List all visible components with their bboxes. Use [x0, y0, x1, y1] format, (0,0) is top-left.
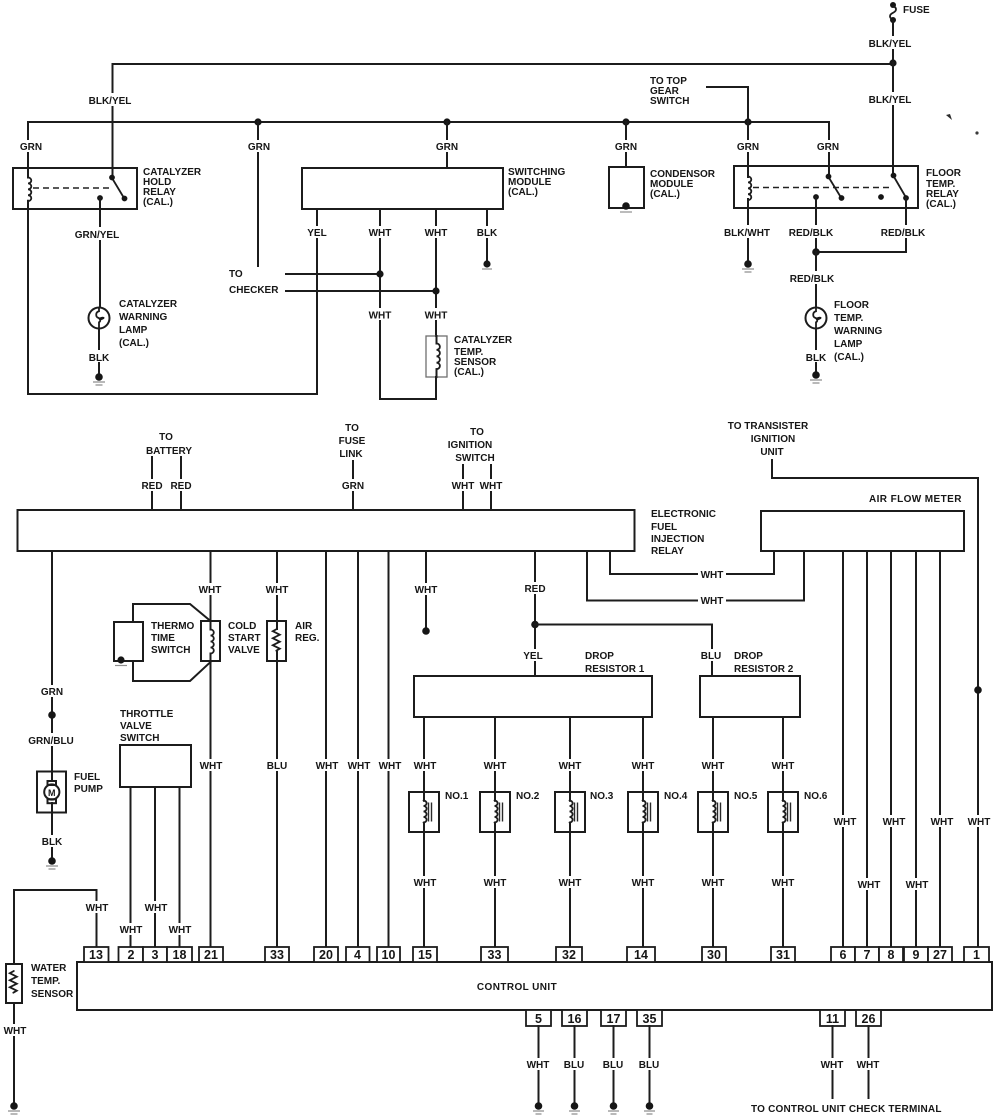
- svg-text:WHT: WHT: [484, 761, 507, 772]
- svg-text:WHT: WHT: [883, 817, 906, 828]
- terminal 20: [314, 947, 338, 962]
- svg-text:RED: RED: [170, 481, 191, 492]
- electronic fuel injection relay: [18, 510, 635, 551]
- svg-text:GRN: GRN: [737, 142, 759, 153]
- svg-text:WHT: WHT: [379, 761, 402, 772]
- svg-text:WHT: WHT: [834, 817, 857, 828]
- svg-text:WHT: WHT: [4, 1026, 27, 1037]
- svg-text:RED/BLK: RED/BLK: [881, 228, 926, 239]
- svg-text:NO.4: NO.4: [664, 791, 688, 802]
- node: BLK/YEL junction: [889, 59, 896, 66]
- svg-text:SWITCH: SWITCH: [120, 733, 159, 744]
- svg-text:GRN: GRN: [615, 142, 637, 153]
- svg-text:ELECTRONIC: ELECTRONIC: [651, 509, 716, 520]
- wire: WHT to cold start valve and terminal 21: [210, 551, 212, 630]
- label GRN node A: [17, 140, 44, 152]
- wire: DR2 out to injector NO.5: [712, 717, 714, 801]
- svg-text:WHT: WHT: [369, 311, 392, 322]
- svg-text:GRN: GRN: [817, 142, 839, 153]
- svg-text:6: 6: [840, 948, 847, 962]
- svg-text:RED: RED: [524, 584, 545, 595]
- svg-text:BLU: BLU: [267, 761, 288, 772]
- terminal 35: [637, 1010, 662, 1026]
- wire: YEL from switching module to rail: [316, 209, 318, 394]
- node: RED/BLK junction: [812, 248, 820, 256]
- wire: BLK pump to ground: [51, 813, 53, 858]
- svg-text:DROP: DROP: [734, 651, 763, 662]
- svg-text:GRN: GRN: [436, 142, 458, 153]
- wire: GRN fuse link feed: [352, 461, 354, 510]
- drop resistor 1: [414, 676, 652, 717]
- svg-text:13: 13: [89, 948, 103, 962]
- svg-text:BLK: BLK: [806, 353, 827, 364]
- svg-text:RESISTOR 2: RESISTOR 2: [734, 664, 794, 675]
- wire: DR1 out to injector NO.2: [494, 717, 496, 801]
- svg-text:(CAL.): (CAL.): [926, 199, 956, 210]
- svg-text:LINK: LINK: [339, 449, 363, 460]
- floor temp warning lamp: [806, 308, 827, 329]
- svg-text:FLOOR: FLOOR: [834, 300, 870, 311]
- svg-text:SENSOR: SENSOR: [31, 989, 74, 1000]
- svg-text:3: 3: [152, 948, 159, 962]
- terminal 11: [820, 1010, 845, 1026]
- svg-text:THERMO: THERMO: [151, 621, 195, 632]
- wire: RED battery feed 2: [180, 457, 182, 510]
- terminal 14: [627, 947, 655, 962]
- svg-text:WHT: WHT: [415, 585, 438, 596]
- terminal 30: [702, 947, 726, 962]
- svg-text:GRN: GRN: [41, 687, 63, 698]
- svg-text:TO: TO: [229, 269, 243, 280]
- wire: WHT ignition feed 1: [462, 465, 464, 510]
- svg-text:RED: RED: [141, 481, 162, 492]
- svg-text:BLK: BLK: [477, 228, 498, 239]
- wire: terminal 16 to ground: [574, 1026, 576, 1102]
- ground: condensor internal: [622, 202, 630, 210]
- svg-text:(CAL.): (CAL.): [143, 197, 173, 208]
- node: RED/YEL-BLU split: [531, 621, 539, 629]
- terminal 18: [167, 947, 192, 962]
- cold start valve: [201, 621, 220, 661]
- terminal 13: [84, 947, 109, 962]
- catalyzer warning lamp: [89, 308, 110, 329]
- svg-text:BLU: BLU: [639, 1060, 660, 1071]
- wire: terminal 5 to ground: [538, 1026, 540, 1102]
- svg-text:TO TRANSISTER: TO TRANSISTER: [728, 421, 809, 432]
- wire: GRN bus end to floor relay switch: [828, 122, 830, 176]
- wire: TVS to terminal 2: [130, 787, 132, 947]
- svg-text:(CAL.): (CAL.): [119, 338, 149, 349]
- wire: AFM pin to terminal 7: [866, 551, 868, 947]
- svg-text:WHT: WHT: [906, 880, 929, 891]
- svg-text:31: 31: [776, 948, 790, 962]
- wire: BLK stub of module: [486, 209, 488, 260]
- wire: WHT run relay to air flow meter (lower): [587, 551, 804, 601]
- wire: water temp sensor to terminal 13: [14, 890, 97, 964]
- terminal 21: [199, 947, 223, 962]
- wire: lamp to ground: [815, 329, 817, 372]
- terminal 2: [119, 947, 144, 962]
- svg-text:WHT: WHT: [425, 228, 448, 239]
- svg-text:WHT: WHT: [968, 817, 991, 828]
- svg-text:AIR: AIR: [295, 621, 313, 632]
- svg-text:33: 33: [270, 948, 284, 962]
- terminal 31: [771, 947, 795, 962]
- svg-text:IGNITION: IGNITION: [448, 440, 492, 451]
- svg-text:16: 16: [568, 1012, 582, 1026]
- terminal 16: [562, 1010, 587, 1026]
- node: checker line2 junction: [432, 287, 439, 294]
- label BLK/YEL: [866, 36, 914, 49]
- label GRN: [734, 140, 761, 152]
- wire: RED/BLK 1: [815, 197, 817, 252]
- fuse: [890, 2, 896, 8]
- wire: terminal 11 to check terminal: [832, 1026, 834, 1098]
- wire: terminal 17 to ground: [613, 1026, 615, 1102]
- wire: transistor unit to terminal 1: [772, 460, 978, 947]
- wire: BLK/WHT coil to ground: [747, 199, 749, 260]
- svg-text:REG.: REG.: [295, 633, 320, 644]
- svg-text:FLOOR: FLOOR: [926, 168, 962, 179]
- svg-text:TIME: TIME: [151, 633, 175, 644]
- wire: main GRN bus: [28, 121, 829, 123]
- wire: thermo switch lower link: [133, 661, 211, 681]
- svg-text:WHT: WHT: [772, 761, 795, 772]
- wire: relay output to terminal 4: [357, 551, 359, 947]
- svg-text:WHT: WHT: [821, 1060, 844, 1071]
- label BLK/WHT: [722, 225, 772, 238]
- label GRN/BLU: [26, 733, 76, 746]
- svg-text:WHT: WHT: [414, 878, 437, 889]
- svg-text:CONTROL UNIT: CONTROL UNIT: [477, 982, 557, 993]
- wire: GRN to floor relay coil: [747, 122, 749, 177]
- svg-text:2: 2: [128, 948, 135, 962]
- node: GRN/GRN-BLU connector: [48, 711, 56, 719]
- svg-text:COLD: COLD: [228, 621, 256, 632]
- wire: to top gear switch: [707, 87, 748, 122]
- terminal 15: [413, 947, 437, 962]
- throttle valve switch: [120, 745, 191, 787]
- wire: RED battery feed 1: [151, 457, 153, 510]
- svg-text:WHT: WHT: [702, 878, 725, 889]
- svg-text:SWITCH: SWITCH: [455, 453, 494, 464]
- wire: TVS to terminal 18: [179, 787, 181, 947]
- wire: terminal 28 to check terminal: [868, 1026, 870, 1098]
- terminal 4: [346, 947, 370, 962]
- svg-text:NO.2: NO.2: [516, 791, 540, 802]
- svg-text:FUSE: FUSE: [339, 436, 366, 447]
- injector NO.2: [480, 791, 540, 832]
- svg-text:CATALYZER: CATALYZER: [119, 299, 178, 310]
- svg-text:PUMP: PUMP: [74, 784, 103, 795]
- svg-text:WHT: WHT: [527, 1060, 550, 1071]
- svg-text:WHT: WHT: [857, 1060, 880, 1071]
- terminal 7: [855, 947, 879, 962]
- svg-text:GRN: GRN: [342, 481, 364, 492]
- wire: GRN to condensor module: [625, 122, 627, 167]
- terminal 26: [856, 1010, 881, 1026]
- svg-text:AIR FLOW METER: AIR FLOW METER: [869, 494, 962, 505]
- node: checker line1 junction: [376, 270, 383, 277]
- terminal 6: [831, 947, 855, 962]
- control unit: [77, 962, 992, 1010]
- wire: WHT/BLU to air regulator and terminal 33: [276, 551, 278, 629]
- svg-text:BLU: BLU: [701, 651, 722, 662]
- svg-text:26: 26: [862, 1012, 876, 1026]
- svg-text:WATER: WATER: [31, 963, 67, 974]
- ground: [744, 260, 752, 268]
- wire: AFM pin to terminal 27: [939, 551, 941, 947]
- svg-text:GRN: GRN: [248, 142, 270, 153]
- svg-text:VALVE: VALVE: [228, 645, 260, 656]
- condensor module: [609, 167, 644, 208]
- svg-text:NO.5: NO.5: [734, 791, 758, 802]
- ground: BLK stub end: [483, 260, 490, 267]
- injector NO.5: [698, 791, 758, 832]
- label YEL: [520, 649, 547, 661]
- svg-text:UNIT: UNIT: [760, 447, 783, 458]
- svg-text:DROP: DROP: [585, 651, 614, 662]
- svg-text:20: 20: [319, 948, 333, 962]
- ground: [610, 1102, 618, 1110]
- catalyzer temp sensor: [426, 336, 447, 377]
- floor temp relay: [734, 166, 918, 208]
- label WHT: [366, 226, 394, 238]
- svg-text:TEMP.: TEMP.: [31, 976, 60, 987]
- terminal 9: [904, 947, 928, 962]
- label RED/BLK: [788, 225, 835, 238]
- svg-text:RESISTOR 1: RESISTOR 1: [585, 664, 645, 675]
- terminal 1: [964, 947, 989, 962]
- svg-text:4: 4: [354, 948, 361, 962]
- svg-text:21: 21: [204, 948, 218, 962]
- svg-text:WHT: WHT: [858, 880, 881, 891]
- svg-text:NO.1: NO.1: [445, 791, 469, 802]
- wire: WHT ignition feed 2: [490, 465, 492, 510]
- wire: WHT pin 2 of module down and right: [380, 209, 436, 399]
- label BLU: [698, 649, 725, 661]
- injector NO.4: [628, 791, 688, 832]
- water temp sensor: [6, 964, 22, 1003]
- svg-text:TO: TO: [159, 432, 173, 443]
- svg-text:SWITCH: SWITCH: [151, 645, 190, 656]
- fuel pump: [37, 772, 66, 813]
- label BLK/YEL: [86, 93, 134, 106]
- svg-text:WARNING: WARNING: [834, 326, 883, 337]
- svg-text:THROTTLE: THROTTLE: [120, 709, 174, 720]
- wire: injector NO.6 to terminal 31: [782, 823, 784, 947]
- wire: DR2 out to injector NO.6: [782, 717, 784, 801]
- svg-text:10: 10: [382, 948, 396, 962]
- svg-text:WHT: WHT: [701, 570, 724, 581]
- svg-text:(CAL.): (CAL.): [454, 367, 484, 378]
- svg-text:WHT: WHT: [200, 761, 223, 772]
- svg-text:WHT: WHT: [559, 761, 582, 772]
- svg-text:CATALYZER: CATALYZER: [454, 335, 513, 346]
- svg-text:TO CONTROL UNIT CHECK TERMINAL: TO CONTROL UNIT CHECK TERMINAL: [751, 1104, 942, 1115]
- svg-text:START: START: [228, 633, 261, 644]
- svg-text:WARNING: WARNING: [119, 312, 168, 323]
- svg-text:BLK: BLK: [42, 837, 63, 848]
- wire: GRN relay output to fuel pump: [51, 551, 53, 772]
- svg-text:1: 1: [973, 948, 980, 962]
- terminal 33b: [481, 947, 508, 962]
- wire: thermo switch upper link: [133, 604, 211, 622]
- label YEL: [303, 226, 330, 238]
- wire: GRN/YEL relay output to lamp: [99, 198, 101, 308]
- svg-text:CHECKER: CHECKER: [229, 285, 279, 296]
- svg-text:14: 14: [634, 948, 648, 962]
- wire: injector NO.2 to terminal 33: [494, 823, 496, 947]
- wire: WHT run relay to air flow meter (upper): [610, 551, 774, 574]
- wire: injector NO.3 to terminal 32: [569, 823, 571, 947]
- svg-text:YEL: YEL: [307, 228, 326, 239]
- label BLK: [802, 350, 829, 362]
- svg-text:11: 11: [826, 1012, 839, 1026]
- svg-text:WHT: WHT: [452, 481, 475, 492]
- ground: [571, 1102, 579, 1110]
- svg-text:WHT: WHT: [348, 761, 371, 772]
- svg-text:7: 7: [864, 948, 871, 962]
- svg-text:WHT: WHT: [632, 878, 655, 889]
- svg-text:FUEL: FUEL: [651, 522, 677, 533]
- svg-text:WHT: WHT: [632, 761, 655, 772]
- wire: checker line 1: [286, 273, 380, 275]
- svg-text:GRN/BLU: GRN/BLU: [28, 736, 74, 747]
- label RED/BLK: [880, 225, 927, 238]
- ground: [48, 857, 56, 865]
- svg-text:WHT: WHT: [425, 311, 448, 322]
- label GRN/YEL: [73, 227, 122, 240]
- svg-text:(CAL.): (CAL.): [650, 189, 680, 200]
- svg-text:WHT: WHT: [772, 878, 795, 889]
- svg-text:WHT: WHT: [316, 761, 339, 772]
- ground: [10, 1102, 18, 1110]
- terminal 5: [526, 1010, 551, 1026]
- svg-text:WHT: WHT: [931, 817, 954, 828]
- svg-text:BLU: BLU: [564, 1060, 585, 1071]
- wire: RED relay output to drop resistors: [534, 551, 536, 676]
- wire: top BLK/YEL feed from fuse: [113, 63, 894, 65]
- svg-text:GRN/YEL: GRN/YEL: [75, 230, 119, 241]
- svg-text:WHT: WHT: [199, 585, 222, 596]
- wire: relay output to terminal 10: [388, 551, 390, 947]
- wire: GRN to checker: [257, 122, 259, 266]
- wire: checker line 2: [286, 290, 436, 292]
- terminal 3: [143, 947, 167, 962]
- wire: RED/BLK 2: [816, 198, 906, 252]
- wire: fuse to junction: [892, 21, 894, 63]
- terminal 10: [377, 947, 400, 962]
- svg-text:M: M: [48, 788, 56, 798]
- svg-text:15: 15: [418, 948, 432, 962]
- svg-text:BLK: BLK: [89, 353, 110, 364]
- label GRN: [433, 140, 460, 152]
- svg-text:BLK/YEL: BLK/YEL: [869, 95, 912, 106]
- wire: GRN tap to switching module: [446, 122, 448, 168]
- wire: DR1 out to injector NO.1: [423, 717, 425, 801]
- svg-text:WHT: WHT: [266, 585, 289, 596]
- svg-text:17: 17: [607, 1012, 621, 1026]
- svg-text:GRN: GRN: [20, 142, 42, 153]
- wire: TVS to terminal 3: [154, 787, 156, 947]
- wire: GRN left drop to bottom rail: [27, 122, 29, 178]
- ground: [535, 1102, 543, 1110]
- svg-text:NO.3: NO.3: [590, 791, 614, 802]
- svg-text:BLK/YEL: BLK/YEL: [869, 39, 912, 50]
- svg-text:WHT: WHT: [702, 761, 725, 772]
- ground: [95, 373, 103, 381]
- drop resistor 2: [700, 676, 800, 717]
- svg-text:(CAL.): (CAL.): [834, 352, 864, 363]
- svg-text:WHT: WHT: [120, 925, 143, 936]
- node: junction on terminal 1 wire: [974, 686, 982, 694]
- svg-text:TO: TO: [345, 423, 359, 434]
- terminal 33: [265, 947, 289, 962]
- svg-text:32: 32: [562, 948, 576, 962]
- svg-text:30: 30: [707, 948, 721, 962]
- injector NO.1: [409, 791, 469, 832]
- svg-text:BLU: BLU: [603, 1060, 624, 1071]
- air flow meter: [761, 511, 964, 551]
- svg-text:SWITCH: SWITCH: [650, 96, 689, 107]
- terminal 27: [928, 947, 952, 962]
- label GRN: [245, 140, 272, 152]
- svg-text:NO.6: NO.6: [804, 791, 828, 802]
- wire: BLK/YEL drop to floor temp relay: [892, 63, 894, 175]
- wire: injector NO.5 to terminal 30: [712, 823, 714, 947]
- wire: relay output to terminal 20: [325, 551, 327, 947]
- svg-text:WHT: WHT: [369, 228, 392, 239]
- svg-text:WHT: WHT: [480, 481, 503, 492]
- wire: terminal 35 to ground: [649, 1026, 651, 1102]
- wire: WHT pin 3 of module to temp sensor: [435, 209, 437, 336]
- wire: injector NO.1 to terminal 15: [423, 823, 425, 947]
- wire: AFM pin to terminal 9: [915, 551, 917, 947]
- svg-text:33: 33: [488, 948, 502, 962]
- svg-text:WHT: WHT: [169, 925, 192, 936]
- wire: BLK/YEL drop to catalyzer hold relay: [112, 64, 114, 177]
- label BLK: [473, 226, 500, 238]
- svg-text:8: 8: [888, 948, 895, 962]
- label GRN: [612, 140, 639, 152]
- wire: bottom rail to YEL: [28, 393, 317, 395]
- svg-text:WHT: WHT: [414, 761, 437, 772]
- speck marks: [946, 114, 952, 120]
- svg-text:BLK/WHT: BLK/WHT: [724, 228, 770, 239]
- svg-text:WHT: WHT: [701, 596, 724, 607]
- ground: [646, 1102, 654, 1110]
- wire: RED/BLK to warning lamp: [815, 252, 817, 308]
- label BLK/YEL: [866, 92, 914, 105]
- injector NO.3: [555, 791, 614, 832]
- svg-text:18: 18: [173, 948, 187, 962]
- terminal 17: [601, 1010, 626, 1026]
- svg-text:YEL: YEL: [523, 651, 542, 662]
- svg-text:LAMP: LAMP: [834, 339, 863, 350]
- wire: WHT sensor to ground: [13, 1003, 15, 1102]
- wire: lamp to ground: [98, 329, 100, 374]
- svg-text:VALVE: VALVE: [120, 721, 152, 732]
- svg-text:TEMP.: TEMP.: [834, 313, 863, 324]
- wire: temp sensor bottom to WHT return: [435, 377, 437, 399]
- wire: AFM pin to terminal 8: [890, 551, 892, 947]
- thermo time switch: [114, 622, 143, 661]
- wire: WHT stub with connector end: [425, 551, 427, 627]
- svg-text:BATTERY: BATTERY: [146, 446, 192, 457]
- svg-text:LAMP: LAMP: [119, 325, 148, 336]
- svg-text:WHT: WHT: [484, 878, 507, 889]
